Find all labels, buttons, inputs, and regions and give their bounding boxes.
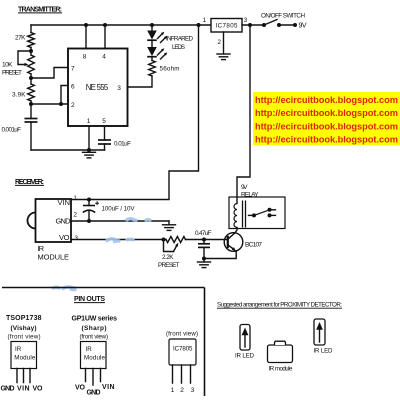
svg-text:LEDS: LEDS (172, 44, 185, 51)
svg-text:9V: 9V (299, 23, 307, 30)
transistor Q1 BC107 (224, 228, 262, 252)
svg-text:6: 6 (71, 83, 75, 90)
pinout TSOP1738 labels (6, 315, 42, 340)
svg-text:VO: VO (33, 386, 44, 393)
LED D1 infrared (147, 31, 167, 48)
divider line (2, 287, 205, 289)
svg-text:(front view): (front view) (166, 331, 198, 338)
label IR MODULE (38, 244, 70, 261)
heading suggested arrangement (217, 302, 342, 309)
svg-text:0.01uF: 0.01uF (114, 141, 131, 148)
svg-text:INFRARED: INFRARED (166, 36, 193, 43)
pinout TSOP1738 legs (17, 369, 30, 383)
potentiometer 2.2K PRESET (158, 237, 186, 269)
svg-text:GND: GND (87, 390, 101, 397)
op-amp/timer IC NE 555 (68, 49, 128, 127)
svg-text:GND: GND (56, 217, 72, 226)
svg-text:(front view): (front view) (80, 333, 109, 340)
capacitor 0.01uF on pin 5 (98, 126, 131, 150)
svg-text:2: 2 (218, 39, 222, 46)
node pin2 rail junction (29, 102, 33, 106)
svg-text:1: 1 (171, 387, 175, 394)
svg-text:8: 8 (83, 53, 87, 60)
pinout TSOP1738 pin names (1, 386, 44, 393)
svg-text:GND: GND (1, 386, 15, 393)
svg-text:1: 1 (87, 118, 91, 125)
svg-text:Suggested arrangement for PROX: Suggested arrangement for PROXIMITY DETE… (217, 302, 342, 309)
relay contacts (249, 208, 276, 218)
svg-text:(front view): (front view) (8, 333, 41, 340)
svg-text:(Vishay): (Vishay) (11, 325, 37, 332)
node preset left junction (162, 238, 166, 242)
svg-text:VO: VO (75, 385, 86, 392)
switch ON/OFF (261, 13, 305, 28)
wire pin 8 to rail (85, 25, 87, 49)
svg-text:2: 2 (180, 387, 184, 394)
wire V+ top rail (31, 24, 211, 26)
node emitter/ground junction (202, 257, 206, 261)
voltage regulator IC7805 (211, 19, 242, 33)
ground IC7805 (217, 54, 230, 60)
IR LED symbol left (235, 325, 255, 360)
wire GND rail (71, 220, 169, 222)
svg-text:http://ecircuitbook.blogspot.c: http://ecircuitbook.blogspot.com (255, 108, 398, 118)
pinout IC7805 package (169, 339, 196, 365)
svg-text:VIN: VIN (17, 386, 30, 393)
node TX ground junction (87, 148, 91, 152)
svg-text:BC107: BC107 (245, 241, 262, 248)
svg-text:3: 3 (191, 387, 195, 394)
svg-text:VIN: VIN (58, 198, 71, 207)
ground TX (83, 152, 96, 158)
svg-text:0.001uF: 0.001uF (2, 127, 22, 134)
svg-text:ON/OFF SWITCH: ON/OFF SWITCH (261, 13, 305, 20)
node pin8 junction (84, 23, 88, 27)
wire relay feed (237, 25, 250, 204)
svg-text:100uF / 10V: 100uF / 10V (102, 206, 136, 213)
IR receiver module box (28, 198, 72, 242)
svg-text:27K: 27K (15, 35, 26, 42)
node 27K/preset junction (29, 49, 33, 53)
svg-text:4: 4 (102, 53, 106, 60)
wire VIN to supply (71, 25, 199, 200)
resistor 3.9K (12, 78, 34, 104)
wire pin 4 to rail (104, 25, 106, 49)
svg-text:IR LED: IR LED (314, 348, 334, 355)
svg-text:PIN OUTS: PIN OUTS (74, 296, 105, 303)
node supply junction A (197, 23, 201, 27)
svg-text:PRESET: PRESET (2, 70, 22, 77)
svg-text:2: 2 (74, 212, 78, 219)
pinout GP1UW labels (72, 315, 118, 340)
svg-text:1: 1 (203, 17, 207, 24)
svg-text:0.47uF: 0.47uF (195, 230, 212, 237)
svg-text:3: 3 (117, 85, 121, 92)
IR module symbol (268, 341, 294, 372)
svg-text:2: 2 (71, 102, 75, 109)
node preset/3.9K junction, wire to pin 7 (29, 76, 33, 80)
svg-text:http://ecircuitbook.blogspot.c: http://ecircuitbook.blogspot.com (255, 121, 398, 131)
svg-text:7: 7 (71, 65, 75, 72)
pinouts right border (204, 288, 206, 397)
wire to pin 6 (61, 86, 68, 105)
ground RX rail (163, 221, 176, 230)
wire to pin 2 (31, 103, 68, 105)
node pin4 junction (103, 23, 107, 27)
node pin6 branch junction (59, 102, 63, 106)
svg-text:3.9K: 3.9K (12, 92, 26, 99)
svg-text:MODULE: MODULE (38, 253, 70, 262)
svg-text:2.2K: 2.2K (162, 254, 174, 261)
node 100uF junction bottom (87, 219, 91, 223)
svg-text:(Sharp): (Sharp) (82, 325, 107, 332)
resistor 56ohm (149, 57, 180, 76)
wire TX ground rail (31, 149, 105, 151)
wire VO rail (71, 239, 164, 241)
capacitor 0.47uF (195, 230, 212, 259)
svg-text:56ohm: 56ohm (160, 66, 180, 73)
svg-text:IC7805: IC7805 (173, 346, 193, 353)
wire pin 1 to ground rail (88, 126, 90, 150)
svg-text:NE 555: NE 555 (86, 83, 109, 92)
svg-text:9V: 9V (241, 184, 248, 191)
node 100uF junction top (87, 198, 91, 202)
section title TRANSMITTER (18, 7, 62, 14)
svg-text:TSOP1738: TSOP1738 (6, 315, 42, 322)
svg-text:Module: Module (84, 355, 106, 362)
resistor 27K (15, 25, 34, 51)
svg-text:1: 1 (74, 195, 78, 202)
pinout GP1UW legs (86, 369, 101, 386)
wire LED chain top (151, 25, 153, 31)
svg-text:GP1UW series: GP1UW series (72, 315, 118, 322)
svg-text:IR module: IR module (269, 366, 294, 373)
LED D2 infrared (147, 47, 167, 59)
heading PIN OUTS (74, 296, 105, 303)
svg-text:RELAY: RELAY (241, 191, 259, 198)
svg-text:IC7805: IC7805 (216, 22, 239, 29)
svg-text:5: 5 (102, 118, 106, 125)
capacitor 0.001uF (2, 104, 38, 150)
svg-text:IR: IR (15, 346, 22, 353)
pinout TSOP1738 package (11, 342, 37, 369)
watermark yellow block (253, 92, 400, 145)
relay coil (234, 204, 237, 228)
potentiometer 10K PRESET (2, 51, 34, 78)
watermark text lines (255, 95, 398, 144)
svg-text:PRESET: PRESET (158, 262, 180, 269)
label INFRARED LEDS (166, 36, 193, 52)
node LED chain junction (150, 23, 154, 27)
svg-text:VO: VO (59, 233, 70, 242)
wire emitter to ground node (204, 251, 236, 259)
svg-text:10K: 10K (2, 62, 13, 69)
pinout IC7805 legs (173, 365, 191, 383)
IR LED symbol right (314, 319, 334, 355)
node 0.47uF junction (202, 238, 206, 242)
section title RECEIVER (15, 179, 44, 186)
svg-text:Module: Module (14, 355, 36, 362)
wire IC7805 pin 2 (218, 32, 224, 54)
decorative-none: blue scan marks (53, 219, 150, 290)
svg-text:http://ecircuitbook.blogspot.c: http://ecircuitbook.blogspot.com (255, 95, 398, 105)
wire LED chain to pin 3 (128, 76, 153, 87)
ground 0.47uF (198, 259, 211, 268)
capacitor 100uF/10V electrolytic (83, 200, 136, 222)
svg-text:3: 3 (75, 235, 79, 242)
pinout IC7805 pin numbers (171, 387, 195, 394)
svg-text:IR: IR (86, 346, 93, 353)
node relay feed junction (248, 23, 252, 27)
svg-text:http://ecircuitbook.blogspot.c: http://ecircuitbook.blogspot.com (255, 134, 398, 144)
svg-text:3: 3 (244, 17, 248, 24)
svg-text:IR LED: IR LED (235, 353, 255, 360)
relay 9V box (229, 184, 285, 229)
wire VO to base (186, 239, 228, 241)
relay core (243, 201, 246, 228)
wire IC7805 output (242, 24, 264, 26)
pinout GP1UW package (81, 342, 107, 369)
svg-text:VIN: VIN (102, 384, 115, 391)
pinout GP1UW pin names (75, 384, 115, 397)
